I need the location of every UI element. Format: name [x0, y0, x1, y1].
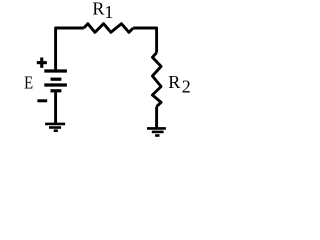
wire from battery negative terminal down to left ground: [54, 92, 57, 123]
plus sign (battery polarity): [37, 58, 47, 68]
svg-text:R2: R2: [168, 72, 190, 97]
minus sign (battery polarity): [37, 99, 47, 102]
svg-text:E: E: [24, 72, 33, 93]
battery E plates: [44, 71, 67, 91]
ground (right, below R2): [147, 128, 166, 135]
svg-text:R1: R1: [92, 0, 113, 22]
wire from R1 to top-right corner down to R2: [133, 28, 156, 53]
wire from battery positive terminal up and across to R1: [56, 28, 84, 69]
resistor R2: [152, 53, 161, 107]
resistor R1: [84, 24, 133, 33]
ground (left, below battery): [45, 124, 65, 131]
wire from R2 down to right ground: [155, 107, 158, 128]
